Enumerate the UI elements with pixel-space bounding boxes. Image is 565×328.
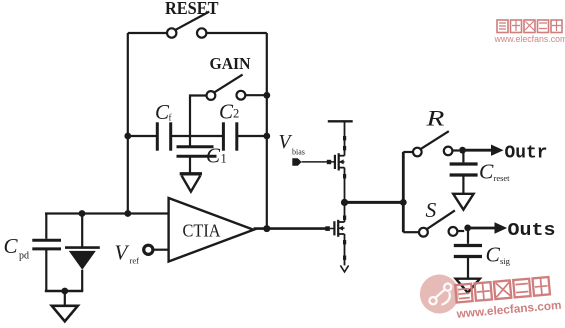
svg-text:bias: bias (292, 148, 305, 157)
wire Vbias to M1 gate (302, 161, 335, 163)
svg-text:ref: ref (130, 256, 140, 266)
wire diode branch down (81, 214, 83, 248)
svg-text:V: V (115, 241, 130, 265)
svg-text:C: C (486, 243, 501, 267)
node junction left bus input (124, 210, 131, 217)
wire left vertical bus (127, 33, 129, 214)
node junction right-bus feedback row (263, 133, 270, 140)
wire to ground (64, 291, 66, 305)
svg-text:C: C (479, 160, 494, 184)
op-amp U1 CTIA (169, 198, 254, 262)
wire sample bus vertical (402, 152, 405, 232)
node junction S output (464, 225, 471, 232)
wire feedback row seg1 (128, 135, 157, 137)
capacitor C1 (177, 147, 217, 157)
node junction GAIN-right-bus (263, 92, 270, 99)
svg-text:Outs: Outs (508, 220, 556, 241)
power rail VDD (328, 120, 353, 122)
svg-text:1: 1 (221, 152, 227, 166)
svg-text:RESET: RESET (165, 0, 219, 18)
svg-text:sig: sig (500, 256, 511, 266)
watermark bottom-right stamp (418, 273, 461, 316)
wire Csig to ground (467, 257, 469, 279)
capacitor Cpd (32, 240, 61, 249)
wire diode to bottom (81, 270, 83, 291)
transistor M1 cascode (335, 153, 345, 170)
ground Csig (456, 279, 480, 293)
wire Outr arrow (463, 149, 493, 152)
node junction sample bus (400, 199, 407, 206)
capacitor Csig (454, 246, 482, 257)
wire to Creset (462, 150, 464, 162)
wire Cpd branch down (45, 214, 47, 239)
switch GAIN (207, 75, 246, 100)
wire RESET to right bus (207, 32, 267, 34)
wire Outs arrow (468, 227, 496, 230)
wire M2 source down (344, 234, 346, 265)
switch RESET (167, 12, 209, 38)
svg-text:Outr: Outr (505, 143, 548, 164)
capacitor Cf (157, 122, 170, 150)
ground C1 (180, 174, 202, 192)
wire top-left to RESET switch (128, 32, 167, 34)
diode D1 photodiode (65, 248, 100, 270)
wire right vertical bus (266, 33, 268, 229)
node junction bottom ground (61, 288, 68, 295)
node junction left-bus feedback row (124, 133, 131, 140)
wire GAIN right terminal to right bus (245, 94, 266, 96)
wire output to M2 gate pad (325, 226, 330, 231)
node junction diode branch (79, 210, 86, 217)
node junction R output (459, 147, 466, 154)
svg-text:C: C (4, 234, 19, 258)
current sink arrow (340, 265, 348, 272)
svg-text:reset: reset (494, 173, 511, 183)
capacitor C2 (223, 122, 236, 150)
node junction output right-bus (263, 225, 270, 232)
switch S (403, 210, 464, 236)
wire op-amp output bus (254, 227, 326, 230)
svg-text:CTIA: CTIA (183, 221, 221, 241)
svg-text:C: C (219, 100, 234, 124)
terminal Vref (144, 245, 153, 254)
ground pixel branch (52, 306, 78, 322)
svg-text:R: R (425, 106, 444, 131)
svg-text:pd: pd (19, 251, 29, 262)
wire M2 drain to node (344, 202, 346, 222)
watermark top-right (494, 20, 565, 44)
transistor M2 driver (334, 220, 344, 237)
wire node to sample bus (345, 201, 404, 204)
svg-text:V: V (279, 132, 293, 153)
switch R (403, 131, 459, 156)
wire Creset to ground (462, 175, 464, 193)
capacitor Creset (450, 164, 478, 175)
wire C1 bottom to ground (189, 156, 191, 172)
wire M1 source to node (344, 168, 346, 203)
svg-text:GAIN: GAIN (210, 54, 251, 73)
wire GAIN left terminal down to C1 top (190, 96, 207, 147)
svg-text:C: C (206, 144, 221, 168)
wire bottom row (45, 290, 83, 293)
wire input node row (45, 212, 169, 214)
wire feedback row seg3 (237, 135, 267, 137)
terminal Vbias (292, 158, 301, 166)
ground Creset (453, 194, 473, 210)
wire to Csig (467, 228, 469, 244)
wire Cpd to bottom (45, 249, 47, 291)
wire Vref to op-amp (154, 249, 169, 251)
wire feedback row seg2 (171, 135, 224, 137)
svg-text:2: 2 (233, 107, 239, 121)
wire rail to M1 drain (344, 121, 346, 155)
svg-text:www.elecfans.com: www.elecfans.com (494, 34, 565, 44)
svg-text:S: S (426, 198, 437, 222)
node junction cascode mid (341, 199, 348, 206)
svg-text:f: f (169, 113, 172, 123)
